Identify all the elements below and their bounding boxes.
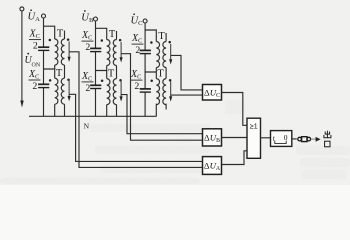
label T upper phase A bbox=[57, 29, 64, 40]
wire phase C main line bbox=[144, 23, 146, 116]
capacitor XC/2 lower phase B bbox=[90, 85, 101, 88]
wire phase C primary bottom to N bus bbox=[155, 104, 157, 117]
label XC/2 lower phase C bbox=[130, 69, 143, 92]
transformer T upper phase B secondary stub bbox=[116, 31, 118, 40]
wire phase A branch to lower transformer primary bbox=[44, 69, 55, 78]
wire phase C branch to lower transformer primary bbox=[145, 72, 156, 79]
label T upper phase B bbox=[109, 29, 116, 40]
transformer T upper phase B secondary winding bbox=[113, 40, 116, 66]
svg-text:2: 2 bbox=[33, 41, 38, 52]
wire phase C link between primary windings bbox=[155, 68, 157, 73]
svg-text:2: 2 bbox=[85, 83, 90, 94]
phase A terminal circle bbox=[42, 14, 46, 18]
wire phase C upper transformer secondary to dUC bbox=[171, 55, 203, 90]
wire phase C secondary bottom stub bbox=[165, 104, 167, 110]
polarity dot upper primary phase A bbox=[49, 39, 52, 42]
label U_C bbox=[131, 13, 144, 27]
transformer T lower phase A primary winding bbox=[55, 78, 58, 104]
wire phase A primary bottom to N bus bbox=[54, 104, 56, 116]
capacitor XC/2 lower phase C bbox=[140, 89, 151, 92]
svg-text:2: 2 bbox=[134, 81, 139, 92]
label exit character CHU bbox=[324, 131, 331, 138]
output arrowhead bbox=[316, 137, 321, 142]
voltage arrow upper secondary phase A bbox=[68, 42, 71, 63]
transformer T upper phase B primary winding bbox=[107, 40, 110, 66]
polarity dot lower secondary phase C bbox=[169, 79, 172, 82]
wire phase C link between secondary windings bbox=[165, 68, 167, 79]
transformer T upper phase C secondary stub bbox=[165, 33, 167, 42]
svg-text:T: T bbox=[109, 29, 116, 40]
polarity dot lower primary phase C bbox=[150, 80, 153, 83]
wire phase C lower transformer secondary to dUC bbox=[171, 94, 203, 96]
node N bus wire bbox=[29, 115, 157, 117]
wire phase A secondary bottom to N bus bbox=[64, 104, 66, 116]
label T lower phase A bbox=[56, 68, 63, 79]
polarity dot lower secondary phase A bbox=[67, 79, 70, 82]
label exit character KOU bbox=[325, 141, 330, 147]
polarity dot upper secondary phase A bbox=[67, 38, 70, 41]
polarity dot upper secondary phase B bbox=[119, 39, 122, 42]
svg-text:T: T bbox=[108, 69, 115, 80]
label XC/2 upper phase C bbox=[131, 33, 144, 56]
voltage arrow upper secondary phase B bbox=[120, 42, 123, 63]
transformer T upper phase C primary winding bbox=[156, 42, 159, 68]
svg-text:T: T bbox=[57, 29, 64, 40]
voltage arrow lower secondary phase C bbox=[169, 81, 172, 102]
signal output element bbox=[298, 137, 311, 142]
phase C terminal circle bbox=[143, 19, 147, 23]
voltage arrow lower secondary phase B bbox=[120, 81, 123, 102]
transformer T lower phase C primary winding bbox=[156, 79, 159, 105]
wire phase A upper transformer secondary to dUA bbox=[69, 52, 202, 168]
wire phase B branch to upper transformer primary bbox=[96, 28, 107, 39]
label T lower phase C bbox=[157, 69, 164, 80]
transformer T lower phase C secondary winding bbox=[163, 79, 166, 105]
wire dUA output to OR gate bbox=[222, 151, 248, 165]
label XC/2 lower phase B bbox=[81, 71, 94, 94]
polarity dot lower primary phase A bbox=[49, 79, 52, 82]
svg-text:≥1: ≥1 bbox=[250, 124, 258, 131]
label T lower phase B bbox=[108, 69, 115, 80]
wire phase B secondary bottom to N bus bbox=[116, 105, 118, 117]
wire phase A link between secondary windings bbox=[64, 65, 66, 78]
node N label bbox=[84, 122, 90, 131]
wire phase C branch to upper transformer primary bbox=[145, 30, 156, 42]
polarity dot lower secondary phase B bbox=[119, 79, 122, 82]
voltage arrow lower secondary phase A bbox=[68, 81, 71, 102]
wire phase B link between secondary windings bbox=[116, 66, 118, 79]
wire OR gate output to timer bbox=[261, 137, 271, 139]
transformer T upper phase A secondary stub bbox=[64, 31, 66, 40]
OR gate box bbox=[247, 118, 261, 158]
label XC/2 upper phase B bbox=[81, 30, 94, 53]
capacitor XC/2 upper phase C bbox=[140, 50, 151, 53]
svg-text:2: 2 bbox=[135, 45, 140, 56]
wire phase A lower transformer secondary to dUA bbox=[69, 94, 202, 161]
svg-text:T: T bbox=[56, 68, 63, 79]
svg-text:N: N bbox=[84, 122, 90, 131]
wire phase B link between primary windings bbox=[106, 66, 108, 71]
wire timer output to signal element bbox=[292, 138, 297, 140]
label XC/2 lower phase A bbox=[28, 69, 41, 92]
capacitor XC/2 upper phase B bbox=[90, 48, 101, 51]
wire phase B lower transformer secondary to dUB bbox=[121, 95, 202, 134]
wire phase B primary bottom to N bus bbox=[106, 105, 108, 117]
transformer T lower phase B primary winding bbox=[107, 79, 110, 105]
polarity dot upper primary phase C bbox=[150, 41, 153, 44]
comparator box dUA bbox=[203, 157, 222, 175]
wire dUB output to OR gate bbox=[222, 137, 248, 139]
polarity dot lower primary phase B bbox=[101, 80, 104, 83]
capacitor XC/2 lower phase A bbox=[38, 84, 49, 87]
svg-text:T: T bbox=[158, 31, 165, 42]
wire signal element to output arrow bbox=[311, 138, 316, 140]
wire phase A main line bbox=[43, 18, 45, 116]
svg-text:2: 2 bbox=[85, 42, 90, 53]
polarity dot upper primary phase B bbox=[101, 39, 104, 42]
wire phase B main line bbox=[95, 21, 97, 116]
left reference rail terminal bbox=[20, 7, 24, 11]
wire phase A link between primary windings bbox=[54, 65, 56, 69]
voltage arrow upper secondary phase C bbox=[169, 44, 172, 65]
label T upper phase C bbox=[158, 31, 165, 42]
timer box bbox=[271, 131, 292, 147]
svg-text:ON: ON bbox=[32, 63, 41, 69]
svg-text:T: T bbox=[157, 69, 164, 80]
transformer T upper phase A secondary winding bbox=[61, 39, 64, 65]
capacitor XC/2 upper phase A bbox=[38, 47, 49, 50]
label XC/2 upper phase A bbox=[29, 29, 42, 52]
label U_ON bbox=[25, 53, 41, 69]
polarity dot upper secondary phase C bbox=[168, 41, 171, 44]
comparator box dUC bbox=[203, 85, 222, 101]
wire phase B branch to lower transformer primary bbox=[96, 71, 107, 79]
wire phase A branch to upper transformer primary bbox=[44, 26, 55, 39]
left reference rail wire with arrow bbox=[20, 11, 23, 108]
transformer T upper phase A primary winding bbox=[55, 39, 58, 65]
wire phase B upper transformer secondary to dUB bbox=[121, 54, 202, 141]
phase B terminal circle bbox=[94, 17, 98, 21]
label U_A bbox=[28, 9, 41, 23]
transformer T upper phase C secondary winding bbox=[163, 42, 166, 68]
transformer T lower phase A secondary winding bbox=[61, 78, 64, 104]
svg-text:2: 2 bbox=[32, 81, 37, 92]
transformer T lower phase B secondary winding bbox=[113, 79, 116, 105]
wire dUC output to OR gate bbox=[222, 93, 248, 126]
label U_B bbox=[81, 10, 94, 24]
comparator box dUB bbox=[203, 129, 222, 146]
